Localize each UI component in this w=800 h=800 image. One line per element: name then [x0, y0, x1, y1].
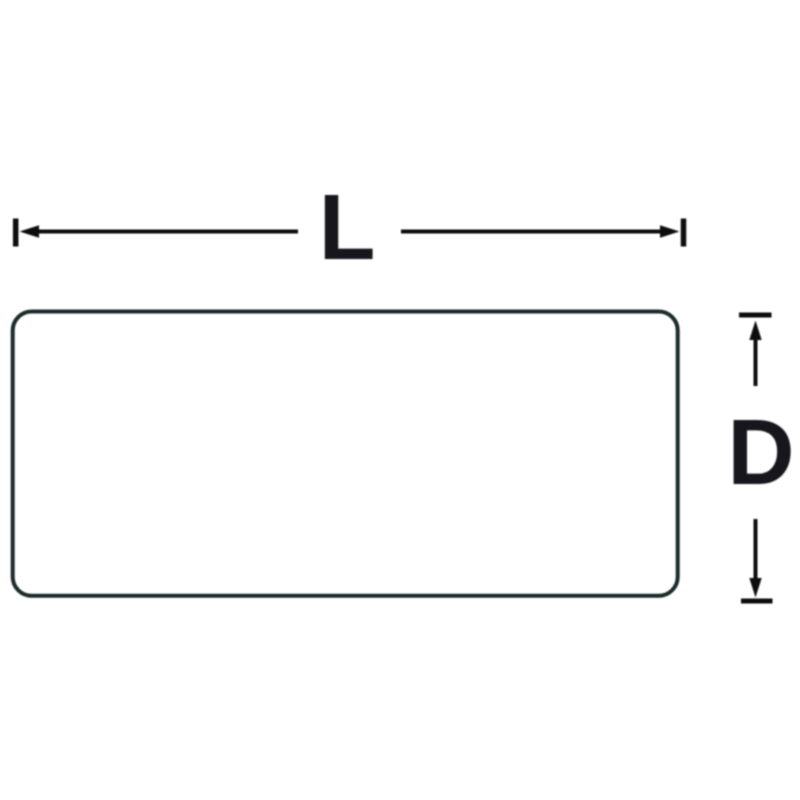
dimension D: lower line segment [754, 519, 758, 580]
dimension D: bottom extension tick [741, 599, 773, 604]
dimension D: upper line segment [754, 337, 758, 386]
dimension L: left extension tick [13, 219, 19, 247]
dimension L: right extension tick [681, 219, 687, 247]
part body: rounded rectangle outline [13, 312, 678, 596]
dimension L: right line segment [401, 230, 663, 234]
dimension D: lower arrowhead (pointing down) [749, 578, 761, 598]
svg-text:D: D [727, 400, 794, 504]
dimension L: right arrowhead [660, 225, 680, 237]
dimension D: upper arrowhead (pointing up) [749, 321, 761, 341]
svg-text:L: L [319, 175, 376, 279]
dimension L: left line segment [36, 230, 298, 234]
dimension L: left arrowhead [20, 225, 40, 237]
dimension D: top extension tick [739, 313, 772, 318]
